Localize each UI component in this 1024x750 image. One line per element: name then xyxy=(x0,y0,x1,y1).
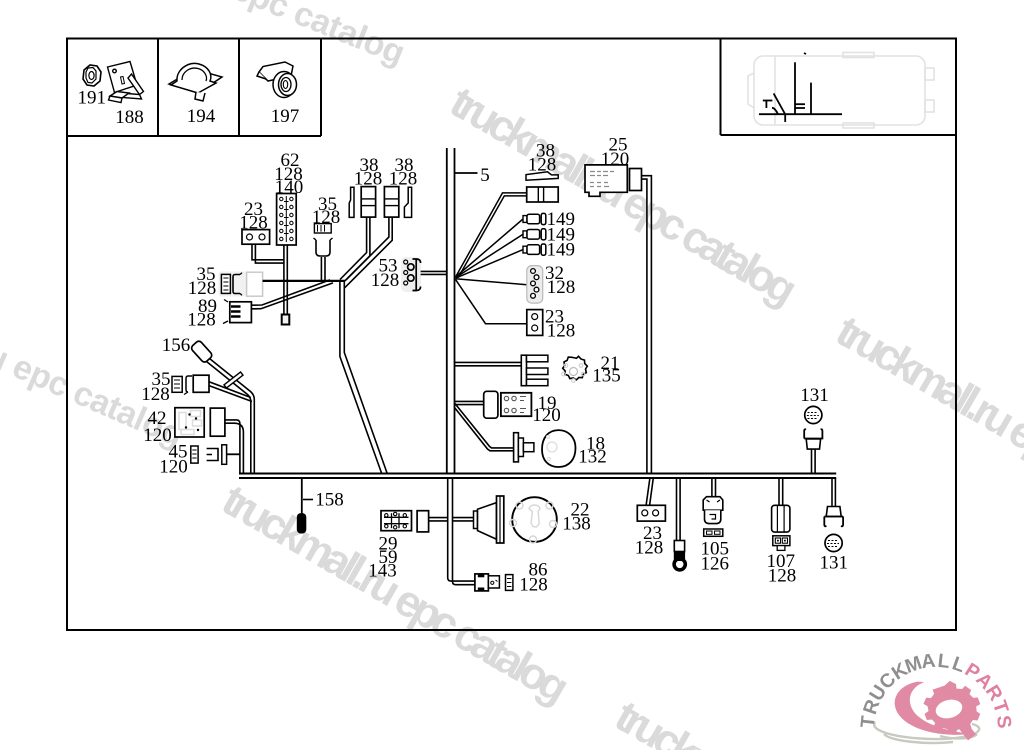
harness location sketch (dark) xyxy=(759,53,842,122)
housing right xyxy=(384,187,398,218)
svg-text:188: 188 xyxy=(115,107,144,128)
svg-text:191: 191 xyxy=(78,88,107,109)
connector 45/120 xyxy=(159,442,240,478)
connector 107/128 xyxy=(767,478,797,587)
wire 38-left down to fork xyxy=(340,217,370,281)
svg-text:128: 128 xyxy=(768,566,797,587)
svg-text:128: 128 xyxy=(519,575,548,596)
svg-text:128: 128 xyxy=(547,277,576,298)
icon clip 197 xyxy=(257,62,297,98)
connector 23/128 left xyxy=(239,199,269,244)
relay 25/120 xyxy=(585,135,642,197)
bullet terminal 149 top xyxy=(523,209,575,230)
connector 105/126 xyxy=(701,478,730,575)
svg-text:128: 128 xyxy=(141,384,170,405)
junction box 29/59/143 xyxy=(368,511,428,582)
logo crescent pink xyxy=(895,682,969,735)
connector 35/128 lower-left xyxy=(141,369,209,405)
inset box top-right (vehicle locator) xyxy=(721,39,957,136)
wire to 149 middle xyxy=(456,234,524,277)
terminal 38/128 top of fan xyxy=(526,141,558,203)
svg-text:132: 132 xyxy=(578,447,607,468)
svg-text:135: 135 xyxy=(592,366,621,387)
plug 156 xyxy=(162,335,213,363)
wire 35-lower to 156 cable xyxy=(209,382,252,402)
svg-text:138: 138 xyxy=(562,514,591,535)
svg-text:5: 5 xyxy=(480,165,490,186)
connector 23/128 right xyxy=(527,307,575,342)
svg-text:120: 120 xyxy=(532,405,561,426)
lamp 131 top xyxy=(800,385,829,474)
gear ring 21 xyxy=(563,356,588,380)
wire 25 down to bottom bus xyxy=(642,176,652,474)
fork wires down from left bus xyxy=(340,281,387,474)
svg-text:131: 131 xyxy=(820,553,849,574)
svg-text:197: 197 xyxy=(271,106,300,127)
callout 5 xyxy=(455,165,490,186)
connector 35/128 top-middle xyxy=(312,194,341,256)
svg-text:128: 128 xyxy=(547,321,576,342)
svg-text:128: 128 xyxy=(371,270,400,291)
svg-text:128: 128 xyxy=(187,310,216,331)
inset boxes top-left xyxy=(67,39,321,137)
svg-text:128: 128 xyxy=(635,538,664,559)
lamp ring 22 xyxy=(512,497,557,542)
bulb socket flange 22/138 xyxy=(474,496,591,543)
lamp 131 bottom xyxy=(820,478,849,574)
housing left xyxy=(361,187,375,218)
cable clip on 156 lead xyxy=(224,372,243,388)
fuse strip 62/128/140 xyxy=(274,150,303,245)
svg-text:S: S xyxy=(992,714,1015,729)
svg-text:194: 194 xyxy=(187,106,216,127)
socket 21/135 xyxy=(455,353,621,387)
svg-text:158: 158 xyxy=(315,490,344,511)
logo swoosh gray shadow arcs xyxy=(874,722,979,743)
wire to 23-right xyxy=(456,279,527,323)
icon bracket 188 xyxy=(108,62,144,103)
truck top-view faint outline xyxy=(748,53,934,129)
svg-text:A: A xyxy=(920,650,936,673)
svg-text:120: 120 xyxy=(143,425,172,446)
connector 23/128 bottom xyxy=(635,478,666,559)
connector 89/128 xyxy=(187,296,251,331)
wire to 149 bottom xyxy=(456,250,524,279)
wire from 62 to bus and stub plug xyxy=(284,245,287,315)
wire 35-top to bus xyxy=(321,257,325,280)
branch to 29 connector and 22 flange xyxy=(419,518,474,521)
grommet 18/132 xyxy=(455,403,607,468)
ground ring terminal xyxy=(674,478,685,570)
trunk continuation below bus to 86 xyxy=(448,478,475,585)
svg-text:156: 156 xyxy=(162,335,191,356)
bullet terminal 149 bottom xyxy=(523,240,575,261)
wire to 32 xyxy=(456,279,527,285)
control unit 42/120 xyxy=(143,408,225,446)
connector 35/128 left at bus xyxy=(188,264,263,299)
cable from 156 down to bottom bus xyxy=(207,359,255,474)
stub 158 with black plug xyxy=(297,478,343,533)
harness trunk 5 (double vertical) xyxy=(447,148,455,474)
logo gear pink xyxy=(919,676,985,740)
blade left xyxy=(349,187,354,217)
svg-text:131: 131 xyxy=(800,385,829,406)
blade right xyxy=(404,187,411,217)
relay 19/120 xyxy=(455,391,561,426)
svg-text:126: 126 xyxy=(701,554,730,575)
wire 42 to bottom bus corner xyxy=(225,420,244,474)
multi-pin strip 32/128 xyxy=(527,263,575,303)
wire 89 to bus xyxy=(251,280,333,309)
end plug on 62 stub xyxy=(282,315,290,325)
svg-text:149: 149 xyxy=(547,240,576,261)
wire 38-top to fan point xyxy=(456,193,527,278)
outer border frame xyxy=(67,39,956,631)
wire 38-right down to fork xyxy=(344,217,392,288)
icon clamp 194 xyxy=(169,63,222,101)
fan wires to right components xyxy=(456,219,527,324)
connector 53/128 xyxy=(371,256,421,293)
bottom bus double line xyxy=(239,474,836,479)
wire 53 to trunk xyxy=(421,271,447,274)
connector 86/128 xyxy=(475,560,548,596)
icon nut 191 xyxy=(83,65,101,86)
wire to 149 top xyxy=(456,219,524,277)
svg-text:143: 143 xyxy=(368,561,397,582)
left bus wire xyxy=(263,280,345,282)
svg-text:120: 120 xyxy=(159,457,188,478)
wire 23-left to 62 stub xyxy=(252,244,284,263)
bullet terminal 149 middle xyxy=(523,224,575,245)
terminal 38/128 left pair xyxy=(349,155,417,217)
